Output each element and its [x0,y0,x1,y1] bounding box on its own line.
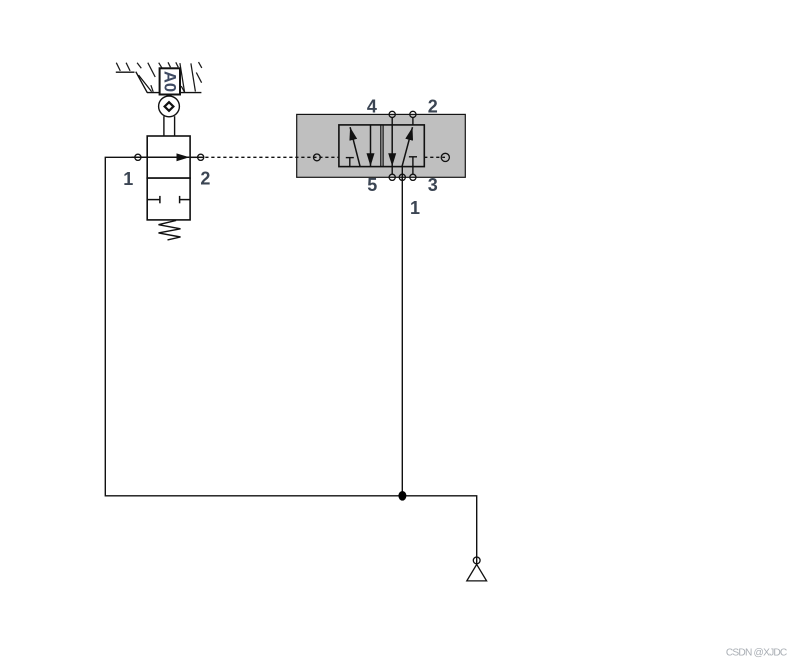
flow path arrow 1->2 [132,156,190,158]
svg-text:1: 1 [410,198,420,218]
cam wall hatching [116,62,202,92]
selection highlight box [297,114,466,177]
valve V2 (5/2) left position box [339,125,424,167]
port 5 stem [391,167,393,175]
svg-text:3: 3 [428,175,438,195]
spring [159,220,181,240]
wire from port1 down-left [105,157,402,496]
cam outline: upper step line [116,71,135,73]
wire from valve port 1 down [401,167,403,496]
port 4 stem [391,118,393,125]
right box: diagonal 1->2 [402,127,413,166]
port 3 stem [412,167,414,175]
pilot port circle right [441,153,449,161]
junction dot [398,491,406,501]
blocked port T right [180,199,191,201]
port 2 circle [198,154,204,160]
port 1 circle [135,154,141,160]
valve V2 position divider (double line) [380,125,382,167]
svg-text:CSDN @XJDC: CSDN @XJDC [726,647,787,658]
stub to port 2 [190,156,204,158]
port 2 stem [412,118,414,125]
valve V1 body bottom box [147,178,190,220]
svg-text:2: 2 [200,169,210,189]
svg-text:4: 4 [367,97,377,117]
left box: vertical 2->3 [370,125,372,166]
svg-text:2: 2 [428,97,438,117]
port 1 stem [401,167,403,181]
pilot port circle left [314,154,321,161]
cam outline: main wall line [147,92,201,94]
cam outline: slope (double diagonal) [136,72,148,93]
left box: blocked 5 [346,157,354,159]
right box: blocked 3 [409,156,417,158]
roller [159,96,180,117]
label box A0 [160,68,180,94]
stem [163,116,165,136]
pilot dashed line right side [424,156,445,158]
port 2 circle [410,111,416,117]
compressed air supply [473,557,480,564]
svg-text:5: 5 [367,175,377,195]
port 3 circle [410,174,416,180]
port 5 circle [389,174,395,180]
pilot dashed line from V1 port2 [205,156,339,158]
port 4 circle [389,111,395,117]
valve V1 body (3/2 roller valve) top box [147,136,190,178]
svg-text:1: 1 [123,169,133,189]
blocked port T left [147,199,160,201]
right box: vertical 4->5 [391,125,393,166]
left box: diagonal 1->4 [350,127,360,166]
svg-text:A0: A0 [160,71,178,92]
port 1 circle [399,174,405,180]
wire junction to supply [402,496,476,565]
